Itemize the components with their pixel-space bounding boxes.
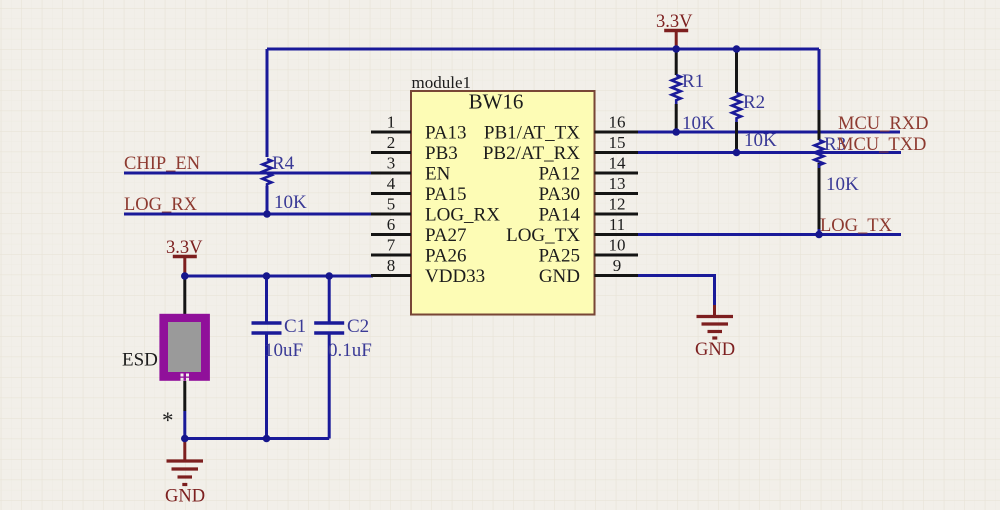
svg-text:C1: C1 [284, 316, 306, 337]
wire R3 bottom lead [818, 163, 821, 235]
svg-text:PB2/AT_RX: PB2/AT_RX [483, 143, 580, 164]
pin 6 PA27 [371, 215, 467, 246]
pin 11 LOG_TX [506, 215, 638, 246]
wire bottom gnd rail [185, 437, 329, 440]
svg-text:CHIP_EN: CHIP_EN [124, 154, 200, 174]
wire top 3.3V rail [267, 48, 819, 51]
svg-text:15: 15 [609, 133, 626, 152]
wire MCU_TXD pin15 [636, 151, 901, 154]
svg-text:ESD: ESD [122, 350, 158, 371]
svg-text:LOG_TX: LOG_TX [820, 216, 893, 236]
pin 5 LOG_RX [371, 195, 500, 226]
pin 7 PA26 [371, 236, 467, 267]
svg-text:10: 10 [609, 236, 626, 255]
svg-text:LOG_RX: LOG_RX [425, 205, 500, 226]
wire pin9 to GND [636, 276, 715, 306]
net label MCU_RXD [838, 114, 928, 134]
net label LOG_TX [820, 216, 893, 236]
svg-text:3.3V: 3.3V [166, 238, 203, 258]
svg-text:PA26: PA26 [425, 246, 467, 267]
svg-text:10K: 10K [826, 174, 859, 195]
junction pin15 at R2 [733, 149, 741, 157]
wire C1 bottom [265, 334, 268, 439]
junction top rail at R2 [733, 45, 741, 53]
junction pin8 at C2 [325, 272, 333, 280]
svg-text:7: 7 [387, 236, 396, 255]
pin 14 PA12 [538, 154, 638, 185]
ground GND left [165, 439, 205, 507]
svg-text:14: 14 [609, 154, 627, 173]
resistor R1 [672, 71, 715, 134]
svg-text:*: * [162, 408, 174, 433]
pin 2 PB3 [371, 133, 458, 164]
junction pin16 at R1 [672, 128, 680, 136]
svg-text:PA15: PA15 [425, 184, 467, 205]
ground GND right [695, 305, 735, 360]
svg-text:VDD33: VDD33 [425, 266, 485, 287]
svg-text:PA13: PA13 [425, 123, 467, 144]
wire R4 top vertical [266, 49, 269, 157]
svg-text:13: 13 [609, 174, 626, 193]
capacitor C1 [252, 316, 307, 361]
wire LOG_TX pin11 [636, 233, 901, 236]
svg-text:9: 9 [613, 256, 622, 275]
wire VDD33 pin8 rail [185, 275, 373, 278]
svg-text:0.1uF: 0.1uF [328, 340, 372, 361]
svg-text:GND: GND [539, 266, 580, 287]
svg-text:module1: module1 [412, 73, 472, 92]
power port 3.3V top [656, 12, 693, 49]
svg-text:R2: R2 [743, 92, 765, 113]
svg-text:4: 4 [387, 174, 396, 193]
svg-text:PA30: PA30 [538, 184, 580, 205]
svg-text:10K: 10K [744, 130, 777, 151]
junction top rail at R1 [672, 45, 680, 53]
wire C2 top [328, 276, 331, 322]
svg-text:MCU_TXD: MCU_TXD [837, 135, 926, 155]
wire MCU_RXD pin16 [636, 131, 900, 134]
svg-text:3: 3 [387, 154, 396, 173]
svg-text:10K: 10K [682, 113, 715, 134]
wire R2 top lead [735, 49, 738, 93]
svg-text:10uF: 10uF [264, 340, 303, 361]
svg-text:3.3V: 3.3V [656, 12, 693, 32]
wire ESD top lead [183, 276, 186, 314]
pin 4 PA15 [371, 174, 467, 205]
pin 8 VDD33 [371, 256, 485, 287]
net label MCU_TXD [837, 135, 926, 155]
svg-text:GND: GND [165, 487, 205, 507]
junction bottom rail at ESD [181, 435, 189, 443]
svg-text:8: 8 [387, 256, 396, 275]
svg-text:C2: C2 [347, 316, 369, 337]
wire R3 branch from rail [818, 49, 821, 140]
IC module1 BW16 [411, 73, 595, 315]
svg-text:PA14: PA14 [538, 205, 580, 226]
junction pin11 at R3 [815, 231, 823, 239]
pin 12 PA14 [538, 195, 638, 226]
svg-text:R4: R4 [272, 153, 295, 174]
wire R1 bottom lead [675, 104, 678, 132]
pin 10 PA25 [538, 236, 638, 267]
svg-text:R1: R1 [682, 71, 704, 92]
power port 3.3V left [166, 238, 203, 276]
wire R2 bottom lead [735, 122, 738, 153]
svg-text:6: 6 [387, 215, 396, 234]
svg-text:16: 16 [609, 113, 626, 132]
svg-text:PB3: PB3 [425, 143, 458, 164]
svg-text:EN: EN [425, 164, 451, 185]
resistor R4 [263, 153, 308, 213]
svg-text:PA25: PA25 [538, 246, 580, 267]
junction pin8 at C1 [263, 272, 271, 280]
junction pin8 at 3.3V [181, 272, 189, 280]
junction bottom rail at C1 [263, 435, 271, 443]
svg-text:2: 2 [387, 133, 396, 152]
svg-text:LOG_RX: LOG_RX [124, 195, 198, 215]
pin 16 PB1/AT_TX [484, 113, 638, 144]
wire C2 bottom [328, 334, 331, 439]
pin 9 GND [539, 256, 638, 287]
wire LOG_RX [124, 213, 373, 216]
pin 1 PA13 [371, 113, 467, 144]
svg-text:GND: GND [695, 340, 735, 360]
svg-text:PB1/AT_TX: PB1/AT_TX [484, 123, 580, 144]
svg-text:5: 5 [387, 195, 396, 214]
svg-text:LOG_TX: LOG_TX [506, 225, 580, 246]
resistor R2 [732, 92, 777, 151]
svg-text:BW16: BW16 [469, 90, 524, 114]
ESD suppressor [122, 314, 210, 433]
net label LOG_RX [124, 195, 198, 215]
svg-text:12: 12 [609, 195, 626, 214]
junction LOG_RX at R4 [263, 210, 271, 218]
pin 3 EN [371, 154, 451, 185]
svg-text:MCU_RXD: MCU_RXD [838, 114, 928, 134]
svg-text:PA27: PA27 [425, 225, 467, 246]
wire C1 top [265, 276, 268, 322]
wire ESD bottom lead [183, 381, 186, 439]
pin 13 PA30 [538, 174, 638, 205]
pin 15 PB2/AT_RX [483, 133, 638, 164]
wire R1 top lead [675, 49, 678, 75]
net label CHIP_EN [124, 154, 200, 174]
svg-text:PA12: PA12 [538, 164, 580, 185]
svg-text:1: 1 [387, 113, 396, 132]
wire R4 bottom vertical [266, 186, 269, 214]
wire CHIP_EN [124, 172, 373, 175]
capacitor C2 [314, 316, 372, 361]
svg-text:10K: 10K [274, 192, 307, 213]
resistor R3 [815, 134, 860, 195]
svg-text:11: 11 [609, 215, 625, 234]
